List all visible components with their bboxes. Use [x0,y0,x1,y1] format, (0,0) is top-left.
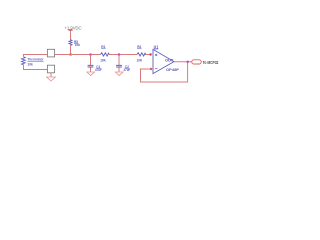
wire - input stub [151,68,153,70]
svg-text:Thermistor: Thermistor [27,57,44,62]
pin dot - input [150,68,152,70]
underline Thermistor [27,61,43,63]
svg-text:10k: 10k [75,43,81,47]
pin dot + input [149,53,151,55]
resistor R1 [101,53,110,56]
svg-text:10K: 10K [137,59,143,63]
op-amp U1 [153,49,174,73]
underline C1 [96,68,100,70]
thermistor RT [22,57,26,65]
underline R5 [74,43,78,45]
underline R2 [137,47,141,49]
svg-text:+1.9VDC: +1.9VDC [64,25,81,30]
plus input mark [155,54,157,56]
svg-text:OP48P: OP48P [166,68,179,72]
capacitor C2 [116,65,122,67]
underline U1 [154,48,159,50]
svg-text:10k: 10k [27,63,33,67]
wire output [174,61,192,63]
connector pin top [47,49,54,57]
wire R5 to net [70,46,72,55]
junction R5/net [70,53,72,55]
svg-text:OUT: OUT [165,57,174,62]
wire connector to ground [50,73,52,77]
resistor R5 [69,40,72,46]
svg-text:47uF: 47uF [124,68,131,72]
ground (C2) [115,72,123,76]
wire thermistor top [24,55,48,57]
wire power to R5 [70,31,72,40]
wire feedback [141,62,188,82]
junction C2 [118,53,120,55]
wire C2 stub [118,55,120,72]
junction output [187,61,189,63]
minus input mark [155,68,157,70]
junction C1 [89,53,91,55]
connector pin bottom [47,65,54,73]
svg-text:47uF: 47uF [95,68,102,72]
svg-text:To MCP32: To MCP32 [203,60,219,65]
capacitor C1 [88,65,94,67]
net flag To MCP32 [192,60,201,64]
wire main net [55,54,150,56]
ground (connector) [47,77,56,81]
resistor R2 [137,53,146,56]
svg-text:10K: 10K [100,59,106,63]
wire thermistor bottom [24,65,48,70]
underline C2 [125,68,129,70]
power bar [68,29,72,31]
underline R1 [101,47,105,49]
ground (C1) [87,72,95,76]
wire C1 stub [90,55,92,72]
